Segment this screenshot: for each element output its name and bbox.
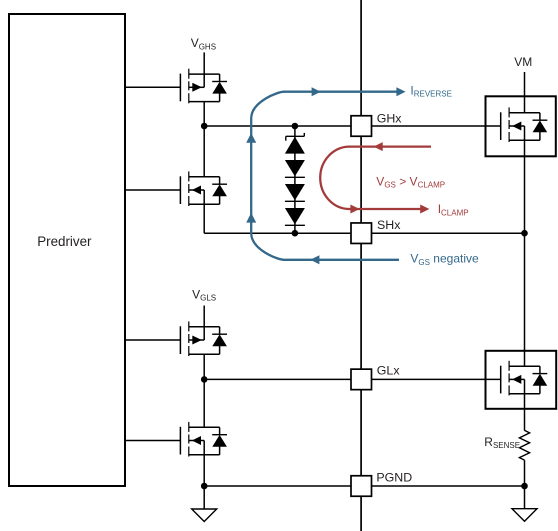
svg-text:GHx: GHx [377, 112, 403, 126]
svg-text:PGND: PGND [376, 471, 412, 485]
svg-text:Predriver: Predriver [37, 234, 92, 249]
svg-text:SHx: SHx [377, 218, 401, 232]
svg-text:GLx: GLx [377, 363, 401, 377]
svg-text:VM: VM [514, 55, 532, 69]
